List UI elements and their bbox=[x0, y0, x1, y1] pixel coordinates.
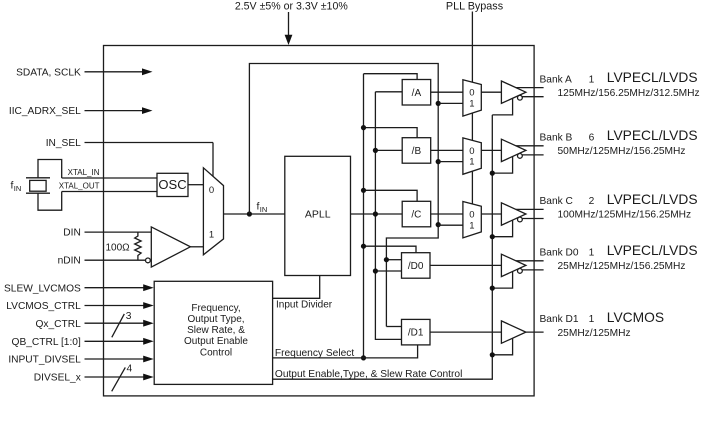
divider /C bbox=[402, 201, 431, 227]
wire output-enable stub bank B bbox=[490, 157, 513, 176]
wire mux B output to buffer bbox=[481, 149, 501, 151]
svg-text:50MHz/125MHz/156.25MHz: 50MHz/125MHz/156.25MHz bbox=[558, 146, 686, 157]
svg-text:Qx_CTRL: Qx_CTRL bbox=[36, 319, 82, 330]
wire Output Enable, Type & Slew Rate bbox=[273, 115, 493, 380]
wire bypass to mux C pin 1 bbox=[438, 224, 463, 226]
svg-text:1: 1 bbox=[469, 99, 474, 110]
control block: Frequency, Output Type, Slew Rate & Output Enable Control bbox=[154, 281, 272, 384]
svg-text:/A: /A bbox=[412, 88, 422, 99]
wire XTAL_IN bbox=[62, 168, 157, 178]
power supply label 2.5V/3.3V bbox=[235, 1, 349, 13]
op-amp-like APLL block U1 bbox=[285, 156, 351, 275]
svg-text:Slew Rate, &: Slew Rate, & bbox=[187, 325, 245, 336]
svg-text:1: 1 bbox=[469, 157, 474, 168]
net Frequency Select distribution bbox=[361, 74, 417, 361]
svg-text:6: 6 bbox=[589, 133, 595, 144]
port Qx_CTRL bbox=[36, 319, 154, 330]
resistor 100 ohm termination bbox=[106, 232, 142, 260]
output buffer bank B bbox=[501, 139, 526, 161]
svg-text:IN_SEL: IN_SEL bbox=[46, 138, 81, 149]
svg-text:Bank D0: Bank D0 bbox=[540, 248, 579, 259]
bank D0 labels bbox=[540, 243, 698, 272]
svg-text:XTAL_IN: XTAL_IN bbox=[68, 168, 100, 177]
svg-text:Bank C: Bank C bbox=[540, 196, 573, 207]
wires bank D1 outputs bbox=[526, 331, 544, 333]
svg-text:APLL: APLL bbox=[305, 208, 331, 220]
svg-text:OSC: OSC bbox=[158, 177, 186, 192]
wire mux A output to buffer bbox=[481, 91, 501, 93]
svg-text:LVCMOS_CTRL: LVCMOS_CTRL bbox=[6, 301, 81, 312]
bus slash 3 on Qx_CTRL bbox=[112, 311, 132, 338]
wire output-enable stub bank D0 bbox=[490, 272, 513, 291]
divider /D1 bbox=[402, 319, 431, 345]
svg-text:2: 2 bbox=[589, 196, 595, 207]
net fIN bypass distribution bbox=[249, 64, 440, 327]
port DIN bbox=[63, 228, 151, 239]
svg-text:0: 0 bbox=[469, 88, 474, 99]
svg-text:LVPECL/LVDS: LVPECL/LVDS bbox=[607, 128, 698, 143]
svg-text:1: 1 bbox=[469, 220, 474, 231]
wire OSC output to input mux pin 0 bbox=[188, 184, 203, 186]
port IIC_ADRX_SEL bbox=[9, 106, 153, 117]
svg-text:LVCMOS: LVCMOS bbox=[607, 310, 664, 325]
svg-text:nDIN: nDIN bbox=[58, 256, 81, 267]
svg-text:LVPECL/LVDS: LVPECL/LVDS bbox=[607, 243, 698, 258]
svg-text:/B: /B bbox=[412, 146, 422, 157]
chip boundary box bbox=[104, 46, 535, 396]
svg-text:4: 4 bbox=[127, 364, 133, 375]
bank C labels bbox=[540, 192, 698, 221]
wires bank C outputs bbox=[516, 209, 544, 218]
wire divider /D1 output bbox=[430, 331, 501, 333]
port DIVSEL_x bbox=[34, 373, 154, 384]
wire output-enable stub bank A bbox=[492, 98, 512, 115]
svg-text:0: 0 bbox=[469, 209, 474, 220]
bank D1 labels bbox=[540, 310, 665, 339]
svg-text:Bank D1: Bank D1 bbox=[540, 314, 579, 325]
svg-text:0: 0 bbox=[209, 185, 214, 196]
port nDIN bbox=[58, 256, 145, 267]
svg-text:Output Enable,Type, & Slew Rat: Output Enable,Type, & Slew Rate Control bbox=[275, 369, 462, 380]
port QB_CTRL [1:0] bbox=[12, 337, 154, 348]
wire XTAL_OUT bbox=[59, 181, 157, 191]
svg-text:LVPECL/LVDS: LVPECL/LVDS bbox=[607, 70, 698, 85]
svg-text:/C: /C bbox=[411, 210, 421, 221]
svg-text:LVPECL/LVDS: LVPECL/LVDS bbox=[607, 192, 698, 207]
input differential receiver buffer bbox=[146, 227, 191, 267]
crystal Y1 bbox=[26, 160, 62, 211]
bank B labels bbox=[540, 128, 698, 157]
pll mux A bbox=[463, 80, 481, 116]
svg-text:DIN: DIN bbox=[63, 228, 81, 239]
wire Frequency Select bbox=[273, 345, 418, 359]
port INPUT_DIVSEL bbox=[8, 355, 153, 366]
svg-text:Output Type,: Output Type, bbox=[187, 314, 244, 325]
port LVCMOS_CTRL bbox=[6, 301, 153, 312]
svg-text:IN: IN bbox=[260, 205, 268, 214]
output buffer bank D0 bbox=[501, 254, 526, 276]
svg-text:IIC_ADRX_SEL: IIC_ADRX_SEL bbox=[9, 106, 81, 117]
svg-text:2.5V ±5% or 3.3V ±10%: 2.5V ±5% or 3.3V ±10% bbox=[235, 1, 349, 13]
svg-text:Bank B: Bank B bbox=[540, 133, 573, 144]
svg-text:1: 1 bbox=[209, 230, 214, 241]
bus slash 4 on DIVSEL_x bbox=[112, 364, 133, 392]
svg-text:DIVSEL_x: DIVSEL_x bbox=[34, 373, 81, 384]
wire Input Divider (control to APLL) bbox=[273, 276, 333, 311]
svg-text:100Ω: 100Ω bbox=[106, 243, 131, 254]
wire receiver output to input mux pin 1 bbox=[190, 246, 203, 248]
svg-text:/D0: /D0 bbox=[408, 261, 424, 272]
svg-text:SDATA, SCLK: SDATA, SCLK bbox=[16, 67, 81, 78]
output buffer bank D1 bbox=[501, 321, 526, 343]
wire divider /C output bbox=[431, 213, 463, 215]
wire bypass to mux B pin 1 bbox=[438, 161, 463, 163]
svg-text:Frequency,: Frequency, bbox=[191, 303, 240, 314]
svg-text:Frequency Select: Frequency Select bbox=[275, 348, 354, 359]
net APLL output distribution bbox=[351, 92, 403, 340]
pll mux C bbox=[463, 202, 481, 238]
svg-text:125MHz/156.25MHz/312.5MHz: 125MHz/156.25MHz/312.5MHz bbox=[558, 88, 700, 99]
svg-text:QB_CTRL [1:0]: QB_CTRL [1:0] bbox=[12, 337, 81, 348]
svg-text:XTAL_OUT: XTAL_OUT bbox=[59, 181, 100, 190]
svg-text:PLL Bypass: PLL Bypass bbox=[446, 1, 504, 13]
svg-text:25MHz/125MHz/156.25MHz: 25MHz/125MHz/156.25MHz bbox=[558, 261, 686, 272]
port IN_SEL wire to input mux select bbox=[46, 138, 213, 176]
svg-text:1: 1 bbox=[589, 314, 595, 325]
svg-text:0: 0 bbox=[469, 146, 474, 157]
divider /B bbox=[402, 138, 431, 164]
wire divider /D0 output bbox=[430, 264, 501, 266]
power supply arrow into chip bbox=[285, 12, 293, 45]
svg-text:3: 3 bbox=[126, 311, 132, 322]
svg-text:IN: IN bbox=[14, 184, 21, 193]
svg-text:25MHz/125MHz: 25MHz/125MHz bbox=[558, 328, 631, 339]
bank A labels bbox=[540, 70, 700, 99]
output buffer bank A bbox=[501, 81, 526, 103]
input mux (XTAL/DIN select) bbox=[203, 168, 223, 255]
svg-text:Input Divider: Input Divider bbox=[276, 300, 333, 311]
wire divider /A output bbox=[431, 91, 463, 93]
svg-text:1: 1 bbox=[589, 248, 595, 259]
svg-text:100MHz/125MHz/156.25MHz: 100MHz/125MHz/156.25MHz bbox=[558, 210, 692, 221]
node fIN (crystal input) bbox=[11, 180, 22, 193]
divider /A bbox=[402, 80, 431, 106]
wire output-enable stub bank C bbox=[490, 220, 513, 239]
wire input mux output to APLL, node fIN bbox=[224, 201, 285, 217]
wires bank B outputs bbox=[516, 146, 544, 155]
wire bypass to mux A pin 1 bbox=[438, 102, 463, 104]
wire output-enable stub bank D1 bbox=[490, 338, 513, 357]
wire divider /B output bbox=[431, 149, 463, 151]
wire mux C output to buffer bbox=[481, 213, 501, 215]
svg-text:Bank A: Bank A bbox=[540, 74, 572, 85]
svg-text:1: 1 bbox=[589, 74, 595, 85]
wires bank A outputs bbox=[516, 88, 544, 97]
PLL Bypass select net bbox=[471, 12, 473, 205]
pll mux B bbox=[463, 138, 481, 174]
svg-text:Control: Control bbox=[200, 347, 232, 358]
output buffer bank C bbox=[501, 203, 526, 225]
svg-text:Output Enable: Output Enable bbox=[184, 336, 248, 347]
divider /D0 bbox=[402, 253, 431, 279]
svg-text:INPUT_DIVSEL: INPUT_DIVSEL bbox=[8, 355, 81, 366]
port SDATA, SCLK bbox=[16, 67, 152, 78]
port SLEW_LVCMOS bbox=[4, 283, 154, 294]
PLL Bypass label bbox=[446, 1, 504, 13]
oscillator OSC bbox=[157, 173, 188, 196]
svg-text:/D1: /D1 bbox=[408, 328, 424, 339]
wires bank D0 outputs bbox=[516, 261, 544, 270]
svg-text:SLEW_LVCMOS: SLEW_LVCMOS bbox=[4, 283, 81, 294]
